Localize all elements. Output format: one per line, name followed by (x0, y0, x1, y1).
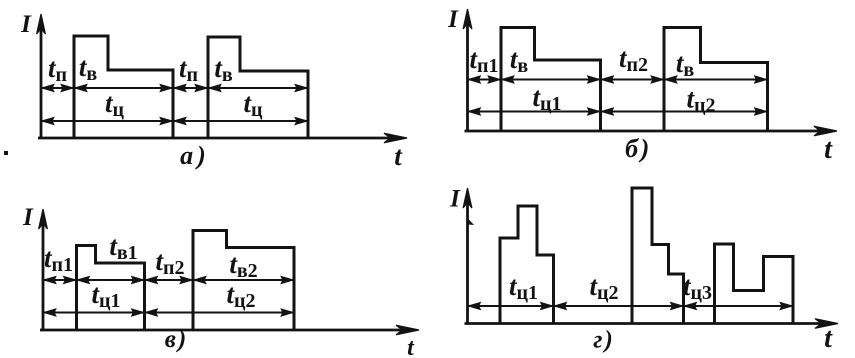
svg-text:I: I (449, 186, 461, 213)
svg-text:I: I (20, 11, 32, 38)
svg-text:в): в) (165, 326, 189, 353)
svg-text:I: I (22, 204, 34, 231)
svg-text:а): а) (180, 141, 210, 170)
svg-text:г): г) (593, 327, 615, 354)
svg-text:б): б) (625, 134, 652, 163)
svg-text:t: t (824, 323, 833, 354)
svg-text:I: I (447, 6, 459, 33)
svg-text:t: t (824, 134, 833, 165)
